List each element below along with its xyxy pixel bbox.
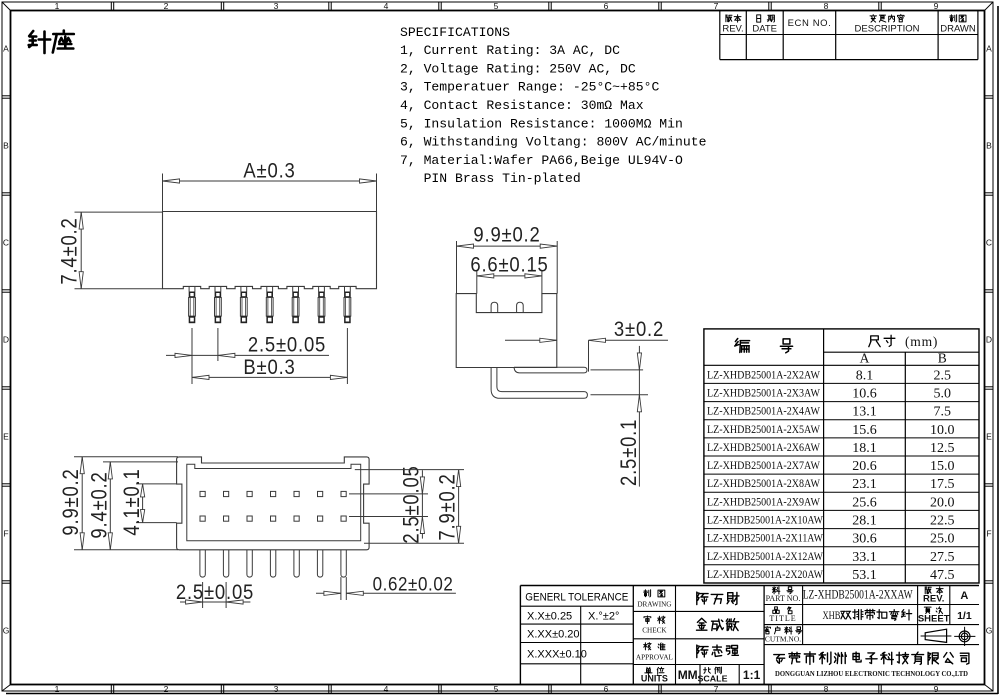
dimension 9.9+-0.2 top view [74,456,178,458]
svg-text:XHB: XHB [823,608,841,622]
svg-text:3±0.2: 3±0.2 [614,318,664,341]
svg-text:7.4±0.2: 7.4±0.2 [57,217,82,284]
svg-text:27.5: 27.5 [930,550,955,565]
svg-text:1:1: 1:1 [743,668,761,682]
svg-text:7, Material:Wafer PA66,Beige U: 7, Material:Wafer PA66,Beige UL94V-O [400,153,683,168]
middle block labels [633,610,764,612]
svg-text:LZ-XHDB25001A-2X20AW: LZ-XHDB25001A-2X20AW [707,567,824,581]
right shadow line [997,6,999,694]
label zhi tu / DRAWING [644,590,665,597]
revision table header bian geng nei rong [870,14,904,22]
svg-text:3, Temperatuer Range: -25°C~+8: 3, Temperatuer Range: -25°C~+85°C [400,80,659,95]
svg-text:A: A [3,44,9,54]
svg-text:G: G [986,626,993,636]
svg-text:9: 9 [934,1,939,11]
svg-text:A: A [860,351,870,366]
dimension 2.5+-0.05 top view right [349,493,428,495]
svg-text:LZ-XHDB25001A-2X6AW: LZ-XHDB25001A-2X6AW [707,440,821,454]
dimension 3+-0.2 [505,339,557,341]
name jin cheng wei [697,618,739,630]
name chen wan cai [697,592,739,605]
label dan wei / UNITS [645,667,664,674]
units row cells [699,665,701,685]
svg-text:8.1: 8.1 [856,368,874,383]
svg-text:3: 3 [274,1,279,11]
third angle projection symbol cone [925,629,946,642]
svg-text:7.9±0.2: 7.9±0.2 [435,473,460,540]
svg-text:18.1: 18.1 [852,441,877,456]
svg-text:E: E [3,432,9,442]
revision table grid [720,59,978,61]
svg-text:DRAWING: DRAWING [637,601,671,609]
svg-text:X.°±2°: X.°±2° [588,611,619,623]
svg-text:F: F [3,529,8,539]
svg-text:15.0: 15.0 [930,459,955,474]
svg-text:REV.: REV. [923,594,944,605]
dimension 7.4+-0.2 [75,211,163,213]
name chen zhi qiang [697,645,739,658]
svg-text:SHEET: SHEET [918,614,950,625]
svg-text:5.0: 5.0 [933,387,951,402]
svg-text:PIN Brass Tin-plated: PIN Brass Tin-plated [400,171,581,186]
company name chinese [774,652,969,665]
bottom shadow line [6,693,998,695]
revision table header zhi tu [950,15,966,22]
svg-text:A±0.3: A±0.3 [243,159,295,182]
svg-text:SCALE: SCALE [698,674,728,684]
svg-text:6, Withstanding Voltang: 800V: 6, Withstanding Voltang: 800V AC/minute [400,135,706,150]
top view cavity outline [187,464,361,541]
svg-text:1: 1 [55,684,60,694]
label pin ming / TITLE [773,607,792,614]
svg-text:DRAWN: DRAWN [940,24,976,35]
revision table header ri qi [757,15,775,22]
svg-text:4, Contact Resistance: 30mΩ Ma: 4, Contact Resistance: 30mΩ Max [400,98,644,113]
svg-text:F: F [986,529,991,539]
svg-text:33.1: 33.1 [852,550,877,565]
svg-text:2: 2 [164,1,169,11]
svg-text:DONGGUAN LIZHOU ELECTRONIC TEC: DONGGUAN LIZHOU ELECTRONIC TECHNOLOGY CO… [775,669,968,678]
svg-text:1, Current Rating: 3A AC, DC: 1, Current Rating: 3A AC, DC [400,43,620,58]
svg-text:SPECIFICATIONS: SPECIFICATIONS [400,25,510,40]
svg-text:E: E [986,432,992,442]
svg-text:8: 8 [824,1,829,11]
svg-text:20.0: 20.0 [930,495,955,510]
svg-text:9.9±0.2: 9.9±0.2 [58,468,83,535]
svg-text:2.5±0.05: 2.5±0.05 [248,333,326,356]
svg-text:6: 6 [604,684,609,694]
dimension A+-0.3 [162,174,164,212]
svg-text:DATE: DATE [752,24,777,35]
label ban ben / REV. [925,587,943,594]
label he zhun / APPROVAL [644,643,665,650]
border zone ticks left [2,95,11,97]
svg-text:LZ-XHDB25001A-2X12AW: LZ-XHDB25001A-2X12AW [707,549,824,563]
svg-text:2, Voltage Rating: 250V AC, DC: 2, Voltage Rating: 250V AC, DC [400,61,636,76]
svg-text:CUTM.NO.: CUTM.NO. [765,635,801,644]
svg-text:X.X±0.25: X.X±0.25 [527,611,572,623]
svg-text:4: 4 [384,1,389,11]
svg-text:2.5±0.1: 2.5±0.1 [616,419,641,486]
svg-text:C: C [986,238,992,248]
side view housing outline [456,294,557,368]
parts table header chi cun mm [869,335,895,346]
svg-text:B: B [3,141,9,151]
svg-text:4: 4 [384,684,389,694]
label shen he / CHECK [644,616,665,624]
svg-text:B±0.3: B±0.3 [243,356,295,379]
side view lower bent pin [491,368,587,399]
border zone ticks right [985,95,994,97]
label ye ci / SHEET [924,607,942,614]
drawing title text zhen zuo [29,31,74,54]
dimension 0.62+-0.02 [340,577,342,600]
svg-text:22.5: 22.5 [930,514,955,529]
svg-text:LZ-XHDB25001A-2X11AW: LZ-XHDB25001A-2X11AW [707,531,824,545]
svg-text:LZ-XHDB25001A-2X7AW: LZ-XHDB25001A-2X7AW [707,458,821,472]
svg-text:A: A [986,44,992,54]
dimension 7.9+-0.2 [355,469,464,471]
svg-text:LZ-XHDB25001A-2X9AW: LZ-XHDB25001A-2X9AW [707,494,821,508]
label ke hu liao hao / CUTM.NO. [764,626,802,634]
svg-text:PART NO.: PART NO. [766,594,801,603]
parts table header bian hao [735,339,793,353]
dimension 4.1+-0.1 [136,483,177,485]
dimension 2.5+-0.05 bottom [202,582,204,608]
parts table grid [704,329,979,583]
top view shroud outline [177,457,370,550]
svg-text:5, Insulation Resistance: 1000: 5, Insulation Resistance: 1000MΩ Min [400,116,683,131]
svg-text:17.5: 17.5 [930,477,955,492]
svg-text:7.5: 7.5 [933,405,951,420]
svg-text:2.5±0.05: 2.5±0.05 [399,465,424,543]
svg-text:X.XXX±0.10: X.XXX±0.10 [527,649,587,661]
svg-text:12.5: 12.5 [930,441,955,456]
svg-text:DESCRIPTION: DESCRIPTION [855,24,920,35]
svg-text:LZ-XHDB25001A-2X5AW: LZ-XHDB25001A-2X5AW [707,422,821,436]
svg-text:MM: MM [678,668,698,682]
svg-text:25.0: 25.0 [930,532,955,547]
third angle projection symbol target circle [959,631,970,642]
svg-text:9.9±0.2: 9.9±0.2 [473,223,540,246]
svg-text:10.6: 10.6 [852,387,877,402]
dimension 9.4+-0.2 [103,461,178,463]
dimension B+-0.3 [346,328,348,384]
svg-text:5: 5 [494,684,499,694]
svg-text:47.5: 47.5 [930,568,955,583]
svg-text:6.6±0.15: 6.6±0.15 [470,253,548,276]
svg-text:4.1±0.1: 4.1±0.1 [119,468,144,535]
revision table header ban ben [726,15,741,22]
svg-text:20.6: 20.6 [852,459,877,474]
title block outline [520,585,979,587]
dimension 2.5+-0.05 front [191,328,193,384]
svg-text:9.4±0.2: 9.4±0.2 [87,471,112,538]
svg-text:LZ-XHDB25001A-2X8AW: LZ-XHDB25001A-2X8AW [707,476,821,490]
svg-text:15.6: 15.6 [852,423,877,438]
tolerance box [520,605,633,607]
svg-text:LZ-XHDB25001A-2XXAW: LZ-XHDB25001A-2XXAW [803,587,914,602]
svg-text:A: A [960,590,968,602]
svg-text:REV.: REV. [722,24,743,35]
corner diagonals [2,2,11,11]
svg-text:10.0: 10.0 [930,423,955,438]
svg-text:25.6: 25.6 [852,495,877,510]
svg-text:B: B [938,351,947,366]
right block grid [764,604,979,606]
svg-text:LZ-XHDB25001A-2X10AW: LZ-XHDB25001A-2X10AW [707,513,824,527]
svg-text:LZ-XHDB25001A-2X2AW: LZ-XHDB25001A-2X2AW [707,367,821,381]
svg-text:2.5±0.05: 2.5±0.05 [176,581,254,604]
front view pins [188,286,190,291]
svg-text:9: 9 [934,684,939,694]
svg-text:0.62±0.02: 0.62±0.02 [373,572,454,594]
svg-text:6: 6 [604,1,609,11]
svg-text:(mm): (mm) [905,334,938,349]
svg-text:2: 2 [164,684,169,694]
svg-text:30.6: 30.6 [852,532,877,547]
svg-text:7: 7 [714,1,719,11]
dimension 2.5+-0.1 [591,369,644,371]
svg-text:7: 7 [714,684,719,694]
svg-text:APPROVAL: APPROVAL [636,654,673,662]
svg-text:D: D [3,335,9,345]
border zone ticks bottom [110,685,112,694]
top view pins [200,550,205,577]
svg-text:LZ-XHDB25001A-2X3AW: LZ-XHDB25001A-2X3AW [707,386,821,400]
svg-text:ECN NO.: ECN NO. [788,18,832,29]
svg-text:B: B [986,141,992,151]
svg-text:23.1: 23.1 [852,477,877,492]
svg-text:UNITS: UNITS [641,674,668,684]
svg-text:1: 1 [55,1,60,11]
border zone ticks top [110,2,112,11]
svg-text:CHECK: CHECK [642,627,667,635]
label liao hao / PART NO. [772,587,793,594]
svg-text:C: C [3,238,9,248]
side view upper bent pin [514,367,587,373]
svg-text:1/1: 1/1 [957,610,972,622]
front view housing body with castellated bottom edge [163,212,377,289]
side view latch ribs [491,302,498,312]
svg-text:GENERL TOLERANCE: GENERL TOLERANCE [525,592,628,604]
svg-text:2.5: 2.5 [933,368,951,383]
svg-text:D: D [986,335,992,345]
svg-text:5: 5 [494,1,499,11]
dimension 9.9+-0.2 side [456,241,458,294]
top view contact squares [200,491,205,496]
svg-text:TITLE: TITLE [769,614,796,623]
svg-text:8: 8 [824,684,829,694]
svg-text:X.XX±0.20: X.XX±0.20 [527,629,580,641]
dimension 6.6+-0.15 [476,271,478,294]
svg-text:G: G [3,626,10,636]
svg-text:LZ-XHDB25001A-2X4AW: LZ-XHDB25001A-2X4AW [707,404,821,418]
svg-text:28.1: 28.1 [852,514,877,529]
svg-text:53.1: 53.1 [852,568,877,583]
svg-text:3: 3 [274,684,279,694]
svg-text:13.1: 13.1 [852,405,877,420]
